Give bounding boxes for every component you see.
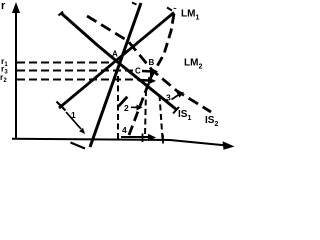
svg-text:3: 3 [166, 93, 171, 103]
curve IS1 (solid, downward) [61, 13, 177, 110]
arrow 3 [172, 92, 185, 100]
svg-text:r: r [1, 0, 6, 12]
x-axis (y axis) [12, 139, 235, 150]
y-axis (r axis) [12, 2, 20, 139]
stray diagonal dash above label 2 [119, 97, 128, 107]
svg-text:2: 2 [124, 103, 129, 113]
svg-text:C: C [135, 67, 141, 76]
svg-text:B: B [149, 58, 155, 67]
vertical projection from C [145, 90, 146, 136]
arrow 1 [66, 112, 85, 134]
LM flat bottom end cap [57, 102, 66, 111]
dashed level line r3 with arrow to B [17, 68, 158, 76]
curve IS2 (dashed, downward, bowed) [87, 16, 211, 112]
dashed level line r1 [17, 62, 113, 64]
svg-text:A: A [112, 50, 118, 59]
curve LM2 (dashed, steep) [129, 8, 175, 135]
svg-text:1: 1 [71, 110, 76, 120]
IS1 bottom end cap [173, 107, 179, 114]
dashed level line r2 with arrow to C [17, 77, 156, 85]
svg-text:4: 4 [122, 125, 127, 135]
curve LM flat (solid, through A region) [59, 13, 174, 109]
IS1 top end cap [59, 12, 64, 16]
LM1 steep top tick [132, 3, 137, 5]
vertical projection from B [160, 95, 163, 139]
curve LM1 steep (solid) [90, 3, 141, 147]
arrow 2 [131, 105, 143, 111]
LM flat top end cap [167, 8, 172, 11]
LM1 steep bottom end cap [71, 143, 86, 149]
vertical projection from A [117, 76, 119, 139]
arrow 4 along axis [121, 134, 163, 144]
